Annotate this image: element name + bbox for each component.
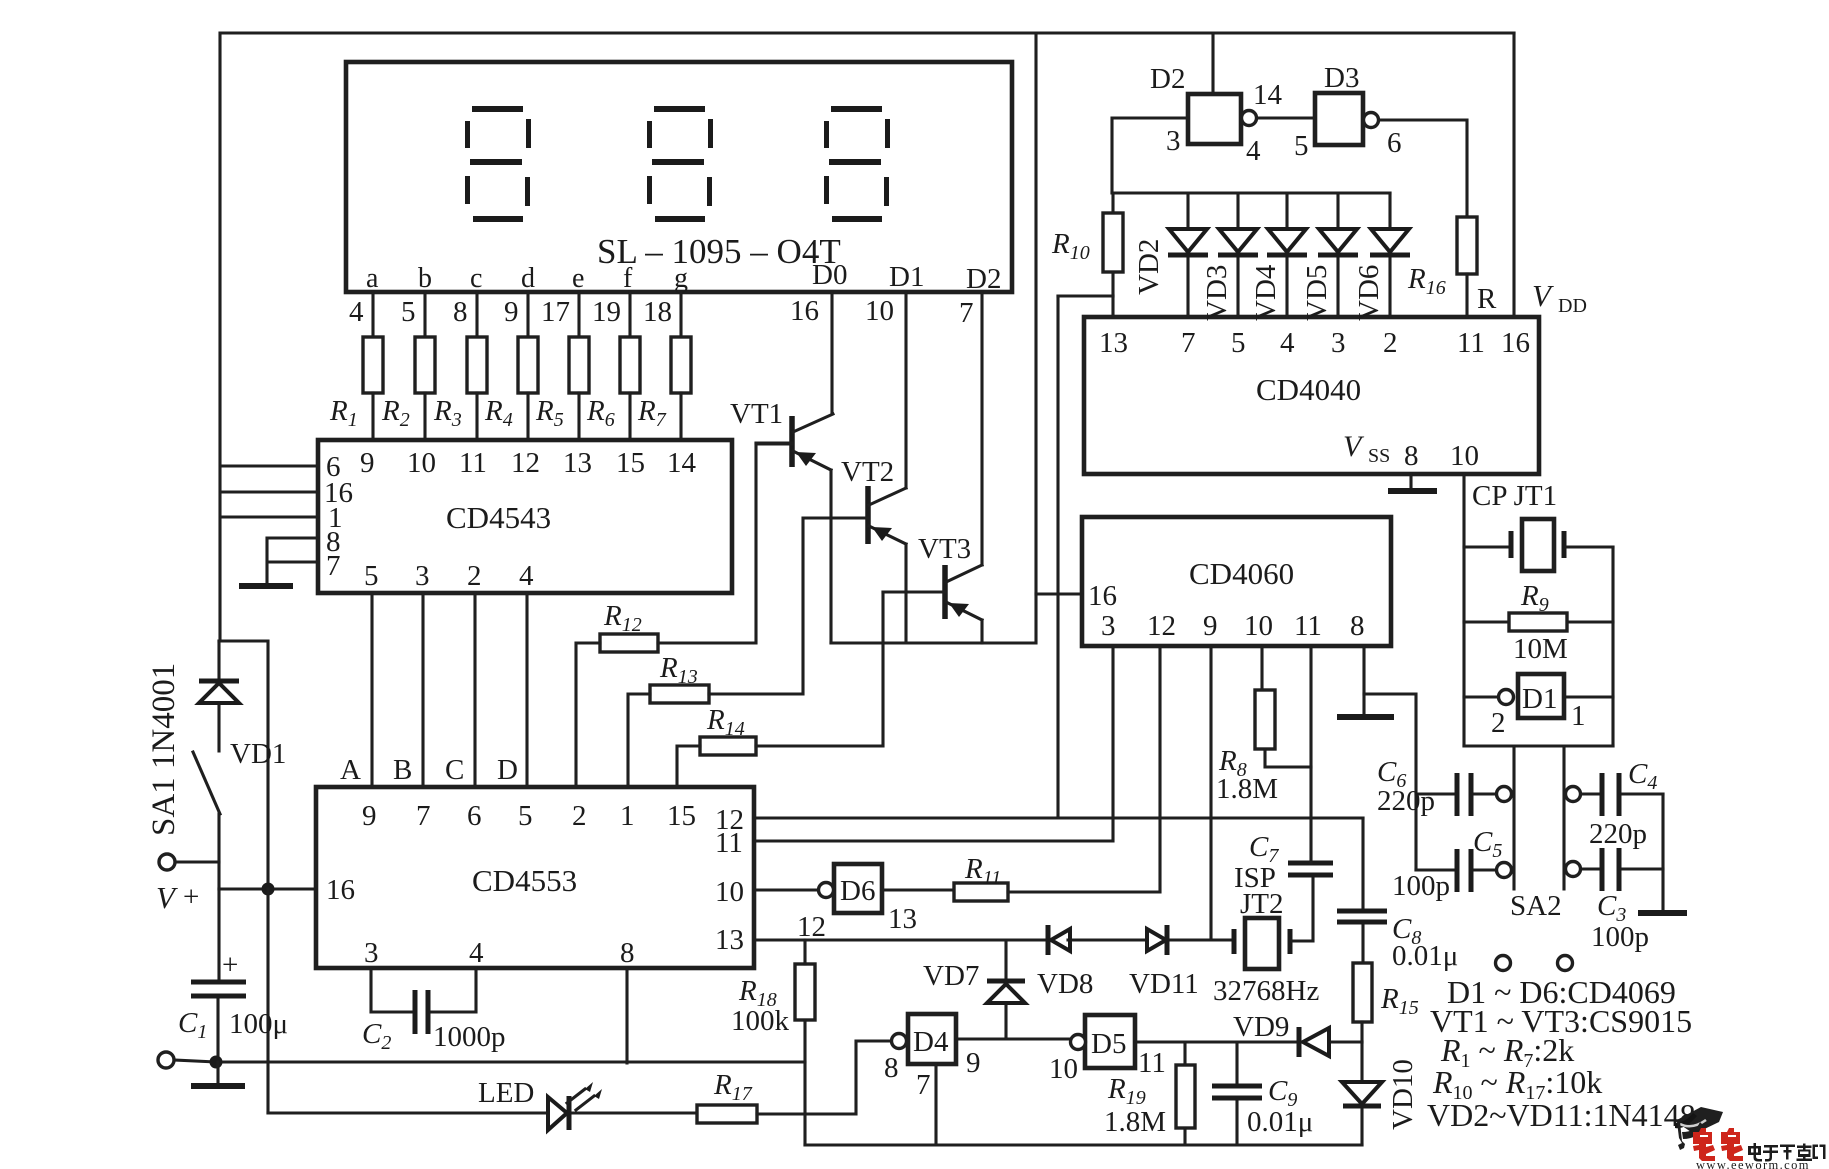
resistor R2 <box>381 337 435 440</box>
svg-text:10M: 10M <box>1513 633 1568 665</box>
svg-text:SA2: SA2 <box>1510 890 1562 922</box>
svg-text:13: 13 <box>715 924 744 956</box>
svg-text:9: 9 <box>504 296 519 328</box>
svg-text:D1: D1 <box>1522 683 1557 715</box>
svg-text:D: D <box>497 754 518 786</box>
svg-text:VD6: VD6 <box>1353 265 1385 321</box>
ground bar for CD4543 pins 8,7 <box>239 583 293 589</box>
svg-text:D3: D3 <box>1324 62 1359 94</box>
svg-text:D2: D2 <box>1150 63 1185 95</box>
svg-text:10: 10 <box>1049 1053 1078 1085</box>
svg-text:10: 10 <box>865 295 894 327</box>
capacitor C1 electrolytic <box>178 889 288 1062</box>
pin 19 (f) <box>628 292 631 337</box>
svg-text:4: 4 <box>1280 327 1295 359</box>
svg-text:7: 7 <box>1181 327 1196 359</box>
IC CD4543 box <box>318 440 732 593</box>
svg-text:8: 8 <box>884 1052 899 1084</box>
svg-text:9: 9 <box>1203 610 1218 642</box>
capacitor C9 <box>1212 1042 1313 1145</box>
svg-text:220p: 220p <box>1377 785 1435 817</box>
IC CD4040 box <box>1084 317 1539 474</box>
svg-text:VT3: VT3 <box>918 533 971 565</box>
wire R10 junction to x1058 riser <box>1058 294 1113 297</box>
capacitor C6 <box>1377 756 1512 817</box>
svg-text:2: 2 <box>467 560 482 592</box>
pin 5 (b) <box>423 292 426 337</box>
terminal GND circle <box>158 1052 174 1068</box>
diode VD3 <box>1201 193 1258 321</box>
resistor R18 <box>731 964 815 1037</box>
wire CD4553 pin10 to D6 <box>754 888 819 891</box>
svg-text:+: + <box>183 881 199 913</box>
svg-text:13: 13 <box>563 447 592 479</box>
resistor R5 <box>535 337 589 440</box>
wire D0 riser to VT1 collector <box>830 292 833 414</box>
resistor R13 <box>650 652 709 703</box>
wire VT2 emitter drop <box>904 544 907 643</box>
ground rail wire <box>175 1060 805 1062</box>
svg-text:1: 1 <box>1571 700 1586 732</box>
svg-text:V: V <box>1532 278 1554 313</box>
svg-text:VD10: VD10 <box>1387 1059 1419 1130</box>
resistor R16 <box>1407 217 1497 317</box>
svg-text:32768Hz: 32768Hz <box>1213 975 1319 1007</box>
svg-text:11: 11 <box>1457 327 1485 359</box>
svg-text:10: 10 <box>1450 440 1479 472</box>
svg-text:VD4: VD4 <box>1250 264 1282 321</box>
7-segment digit 3 <box>824 106 890 222</box>
logo chongchong characters <box>1693 1128 1743 1161</box>
svg-text:12: 12 <box>797 911 826 943</box>
svg-text:VD7: VD7 <box>923 960 979 992</box>
pin 8 (c) <box>475 292 478 337</box>
transistor VT2 <box>804 456 906 544</box>
svg-text:5: 5 <box>1231 327 1246 359</box>
svg-text:C: C <box>445 754 464 786</box>
svg-text:16: 16 <box>326 874 355 906</box>
7-segment digit 1 <box>465 106 531 222</box>
wire CD4060 pin11 riser <box>1309 646 1312 863</box>
svg-text:8: 8 <box>1404 440 1419 472</box>
svg-text:0.01μ: 0.01μ <box>1247 1106 1313 1138</box>
svg-text:D4: D4 <box>913 1026 949 1058</box>
switch SA2 pole 2 <box>1562 746 1565 889</box>
svg-text:100p: 100p <box>1392 870 1450 902</box>
inverter D6 <box>797 864 917 943</box>
wire D6 output to R11 <box>882 888 954 891</box>
svg-text:15: 15 <box>616 447 645 479</box>
svg-text:VD1: VD1 <box>230 738 286 770</box>
wire R14 right to VT3 base <box>756 592 883 746</box>
pin 17 (e) <box>577 292 580 337</box>
svg-text:3: 3 <box>1101 610 1116 642</box>
svg-text:6: 6 <box>1387 127 1402 159</box>
wire D5 output east <box>1135 1040 1362 1043</box>
wire pin6 to left border <box>221 464 318 467</box>
wire D2 riser to VT3 collector <box>980 292 983 565</box>
ground symbol below C1 <box>216 1062 219 1084</box>
svg-text:17: 17 <box>541 296 570 328</box>
svg-text:4: 4 <box>349 296 364 328</box>
wire CD4060 pin8 branch to C5 C6 <box>1364 694 1416 870</box>
svg-text:1000p: 1000p <box>433 1021 506 1053</box>
diode VD5 <box>1301 193 1358 321</box>
resistor R8 <box>1216 646 1311 805</box>
resistor R17 <box>697 1069 757 1123</box>
CD4040 bottom pin numbers 8 10 <box>1404 440 1479 472</box>
wire pin8 pin7 bracket <box>267 538 318 585</box>
diode VD7 <box>923 940 1025 1039</box>
svg-text:12: 12 <box>511 447 540 479</box>
CD4553 ABCD input labels <box>340 754 518 786</box>
svg-text:3: 3 <box>1166 125 1181 157</box>
wire emitter rail to V+ riser <box>831 33 1036 643</box>
component value list <box>1427 974 1696 1133</box>
svg-text:12: 12 <box>1147 610 1176 642</box>
pin 9 (d) <box>526 292 529 337</box>
CD4060 bottom pin numbers 3 12 9 10 11 8 <box>1101 610 1365 642</box>
diode VD11 <box>1129 925 1199 1000</box>
svg-text:0.01μ: 0.01μ <box>1392 940 1458 972</box>
wire CD4060 pin16 to V+ riser <box>1036 592 1082 595</box>
svg-text:D2: D2 <box>966 263 1001 295</box>
svg-text:CD4543: CD4543 <box>446 500 551 535</box>
display digit select labels D0 D1 D2 <box>812 259 1001 295</box>
svg-text:4: 4 <box>469 937 484 969</box>
LED <box>478 1077 602 1130</box>
svg-text:D5: D5 <box>1091 1028 1126 1060</box>
svg-text:+: + <box>222 949 238 981</box>
svg-text:SA1 1N4001: SA1 1N4001 <box>146 663 182 836</box>
wire CD4060 pin8 stub and ground <box>1362 646 1365 715</box>
svg-text:4: 4 <box>1246 135 1261 167</box>
svg-text:D6: D6 <box>840 875 875 907</box>
svg-text:11: 11 <box>1138 1047 1166 1079</box>
pin 4 (a) <box>371 292 374 337</box>
inverter D3 <box>1294 62 1402 162</box>
svg-text:g: g <box>674 263 688 294</box>
top border power rail <box>221 31 1514 34</box>
wire CD4060 pin9 riser <box>1209 646 1212 940</box>
wire R18 bottom to rails <box>803 1020 806 1145</box>
wire R13 right to VT2 base <box>709 518 803 694</box>
svg-text:8: 8 <box>620 937 635 969</box>
wire R11 to CD4060 pin12 <box>1008 646 1160 892</box>
svg-text:7: 7 <box>916 1069 931 1101</box>
wire JT1 right vertical <box>1611 547 1614 746</box>
wire D4 pin7 to bottom rail <box>934 1064 937 1145</box>
wire pin16 to left border <box>221 490 318 493</box>
wire R13 left to CD4553 pin1 <box>628 694 650 787</box>
resistor R4 <box>484 337 538 440</box>
svg-text:5: 5 <box>364 560 379 592</box>
CD4553 top pin numbers 9 7 6 5 2 1 15 <box>362 800 696 832</box>
svg-text:1.8M: 1.8M <box>1104 1106 1166 1138</box>
svg-text:10: 10 <box>715 876 744 908</box>
svg-text:VD9: VD9 <box>1233 1011 1289 1043</box>
wire V+ rail to CD4553 pin16 <box>219 887 316 890</box>
wire junction riser x1058 <box>1058 296 1113 818</box>
svg-text:3: 3 <box>1331 327 1346 359</box>
wire R12 right to VT1 base <box>658 444 792 643</box>
wire CD4553 pin12 long line to C8 <box>754 816 1363 819</box>
svg-text:B: B <box>393 754 412 786</box>
svg-text:1.8M: 1.8M <box>1216 773 1278 805</box>
7-segment digit 2 <box>647 106 713 222</box>
pin 18 (g) <box>679 292 682 337</box>
capacitor C5 <box>1392 826 1512 902</box>
svg-text:16: 16 <box>1088 580 1117 612</box>
wire D2 input from diode bus <box>1112 118 1188 193</box>
LED wire rail <box>268 1111 697 1114</box>
resistor R7 <box>637 337 691 440</box>
CD4040 top pin numbers 13 7 5 4 3 2 11 16 <box>1099 327 1530 359</box>
svg-text:16: 16 <box>790 295 819 327</box>
svg-text:11: 11 <box>1294 610 1322 642</box>
CD4543 top pin numbers 9 10 11 12 13 15 14 <box>360 447 697 479</box>
inverter D2 <box>1150 63 1283 167</box>
svg-text:14: 14 <box>1253 79 1283 111</box>
resistor R11 <box>954 853 1008 901</box>
ground bar C3 C4 <box>1638 910 1687 916</box>
switch SA1 lever <box>193 752 220 814</box>
wire D1 riser to VT2 collector <box>904 292 907 488</box>
svg-text:D1: D1 <box>889 261 924 293</box>
capacitor C7 <box>1288 863 1333 875</box>
svg-text:f: f <box>623 263 633 294</box>
diode VD8 <box>1037 925 1093 1000</box>
svg-text:A: A <box>340 754 361 786</box>
capacitor C8 <box>1337 818 1458 972</box>
wires CD4543 pins 5,3,2,4 down to CD4553 pins 9,7,6,5 <box>372 593 527 787</box>
wire VT3 emitter drop <box>980 620 983 643</box>
wire CD4553 pin8 to ground rail <box>625 968 628 1063</box>
svg-text:5: 5 <box>401 296 416 328</box>
svg-text:220p: 220p <box>1589 818 1647 850</box>
transistor VT3 <box>883 533 982 620</box>
wire D2 power pin riser <box>1211 33 1214 94</box>
svg-text:LED: LED <box>478 1077 534 1109</box>
svg-text:5: 5 <box>518 800 533 832</box>
svg-text:SL – 1095 – O4T: SL – 1095 – O4T <box>597 232 841 271</box>
diode VD2 <box>1133 193 1208 317</box>
left border jog to V+ node <box>219 641 268 889</box>
svg-text:11: 11 <box>715 827 743 859</box>
svg-text:b: b <box>418 263 432 294</box>
wire pin1 to left border <box>221 515 318 518</box>
svg-text:7: 7 <box>959 297 974 329</box>
wire x=268 down to LED rail <box>266 889 269 1113</box>
svg-text:VD3: VD3 <box>1201 265 1233 321</box>
logo site name characters <box>1748 1143 1826 1162</box>
svg-text:a: a <box>366 263 379 294</box>
inverter D4 <box>884 1014 981 1101</box>
wire R17 to D4 input <box>757 1041 891 1114</box>
resistor R6 <box>586 337 640 440</box>
svg-text:10: 10 <box>1244 610 1273 642</box>
svg-text:R: R <box>1477 283 1497 315</box>
svg-text:www.eeworm.com: www.eeworm.com <box>1696 1158 1810 1169</box>
crystal JT2 32768Hz <box>1213 831 1319 1007</box>
wire terminal to switch <box>176 860 219 863</box>
wire CD4040 pin8 stub + ground <box>1409 474 1412 489</box>
svg-text:4: 4 <box>519 560 534 592</box>
diode VD4 <box>1250 193 1307 321</box>
resistor R14 <box>700 704 756 755</box>
wire CD4040 pin10 long riser <box>1462 474 1465 746</box>
svg-text:19: 19 <box>592 296 621 328</box>
wire CD4553 pin11 to CD4060 pin3 <box>754 646 1113 841</box>
resistor R12 <box>600 600 658 652</box>
capacitor C3 <box>1566 848 1664 953</box>
svg-text:16: 16 <box>1501 327 1530 359</box>
CD4543 left pin labels 6 16 1 8 7 <box>324 451 353 582</box>
IC CD4060 box <box>1082 517 1391 646</box>
wire CD4553 pin13 line <box>754 938 1234 941</box>
wire R12 left to CD4553 pin2 <box>576 643 600 787</box>
svg-text:100k: 100k <box>731 1005 790 1037</box>
svg-text:15: 15 <box>667 800 696 832</box>
CD4553 right pin labels 12 11 10 13 <box>715 804 744 956</box>
svg-text:9: 9 <box>362 800 377 832</box>
svg-text:2: 2 <box>572 800 587 832</box>
left border wire <box>218 33 221 641</box>
crystal JT1 <box>1464 519 1613 571</box>
wire SA1 to V+ rail <box>217 814 220 889</box>
diode VD9 <box>1233 1011 1329 1057</box>
svg-text:VD2: VD2 <box>1133 239 1165 295</box>
inverter D1 <box>1464 674 1613 739</box>
wire oscillator bottom rail <box>1464 744 1613 747</box>
wire R18 top to pin13 line <box>803 940 806 964</box>
svg-text:VT2: VT2 <box>841 456 894 488</box>
svg-text:7: 7 <box>326 550 341 582</box>
svg-text:d: d <box>521 263 535 294</box>
svg-text:e: e <box>572 263 584 294</box>
wire D4 output to D5 input <box>956 1037 1071 1040</box>
capacitor C2 <box>362 968 506 1054</box>
svg-text:c: c <box>470 263 482 294</box>
svg-text:VD11: VD11 <box>1129 968 1199 1000</box>
switch SA2 pole 1 <box>1512 746 1515 889</box>
svg-text:3: 3 <box>364 937 379 969</box>
resistor R3 <box>433 337 487 440</box>
CD4543 bottom pin numbers 5 3 2 4 <box>364 560 534 592</box>
resistor R1 <box>329 337 383 440</box>
resistor R15 <box>1353 963 1419 1042</box>
resistor R19 <box>1104 1042 1195 1145</box>
svg-text:2: 2 <box>1383 327 1398 359</box>
wire C3 C4 common vertical <box>1661 794 1664 911</box>
svg-text:DD: DD <box>1558 295 1587 317</box>
svg-text:1: 1 <box>620 800 635 832</box>
svg-text:5: 5 <box>1294 130 1309 162</box>
resistor R9 <box>1464 580 1613 665</box>
bottom rail wire <box>805 1143 1362 1146</box>
IC CD4553 box <box>316 787 754 968</box>
display segment pin letters <box>366 263 688 294</box>
svg-text:CP JT1: CP JT1 <box>1472 480 1557 512</box>
node GND junction dot <box>210 1056 223 1069</box>
wire VT1 emitter drop <box>829 470 832 643</box>
diode VD10 <box>1342 1042 1419 1145</box>
logo graduation cap <box>1675 1107 1723 1150</box>
terminal V+ circle <box>159 854 175 870</box>
svg-text:VD8: VD8 <box>1037 968 1093 1000</box>
svg-text:D0: D0 <box>812 259 847 291</box>
display module SL-1095-O4T box <box>346 62 1012 292</box>
svg-text:2: 2 <box>1491 707 1506 739</box>
svg-text:9: 9 <box>360 447 375 479</box>
wire R14 left to CD4553 pin15 <box>677 746 700 787</box>
CD4553 bottom pin numbers 3 4 8 <box>364 937 635 969</box>
svg-text:13: 13 <box>1099 327 1128 359</box>
right border wire down to CD4040 pin16 <box>1512 33 1515 317</box>
diode bus wire <box>1112 191 1390 194</box>
node V+ junction dot <box>262 883 275 896</box>
svg-text:14: 14 <box>667 447 697 479</box>
svg-text:CD4060: CD4060 <box>1189 556 1294 591</box>
capacitor C4 <box>1566 758 1664 850</box>
svg-text:VD2~VD11:1N4148: VD2~VD11:1N4148 <box>1427 1097 1696 1133</box>
svg-text:6: 6 <box>467 800 482 832</box>
svg-text:VD5: VD5 <box>1301 265 1333 321</box>
transistor VT1 <box>730 398 833 470</box>
SA2 spare contact circles <box>1496 956 1511 971</box>
svg-text:8: 8 <box>1350 610 1365 642</box>
svg-text:SS: SS <box>1368 445 1390 467</box>
diode VD1 1N4001 <box>199 641 286 770</box>
svg-text:18: 18 <box>643 296 672 328</box>
svg-text:100μ: 100μ <box>229 1008 288 1040</box>
svg-text:7: 7 <box>416 800 431 832</box>
svg-text:100p: 100p <box>1591 921 1649 953</box>
wire D3 output to R16 <box>1379 120 1467 217</box>
svg-text:8: 8 <box>453 296 468 328</box>
svg-text:9: 9 <box>966 1047 981 1079</box>
diode VD6 <box>1353 193 1410 321</box>
svg-text:10: 10 <box>407 447 436 479</box>
resistor R10 <box>1051 193 1123 317</box>
svg-text:CD4553: CD4553 <box>472 863 577 898</box>
svg-text:13: 13 <box>888 903 917 935</box>
svg-text:CD4040: CD4040 <box>1256 372 1361 407</box>
svg-text:3: 3 <box>415 560 430 592</box>
wire D2 output to D3 input <box>1257 116 1315 119</box>
svg-text:V: V <box>156 880 178 915</box>
inverter D5 <box>1049 1015 1166 1085</box>
svg-text:VT1: VT1 <box>730 398 783 430</box>
svg-text:11: 11 <box>459 447 487 479</box>
